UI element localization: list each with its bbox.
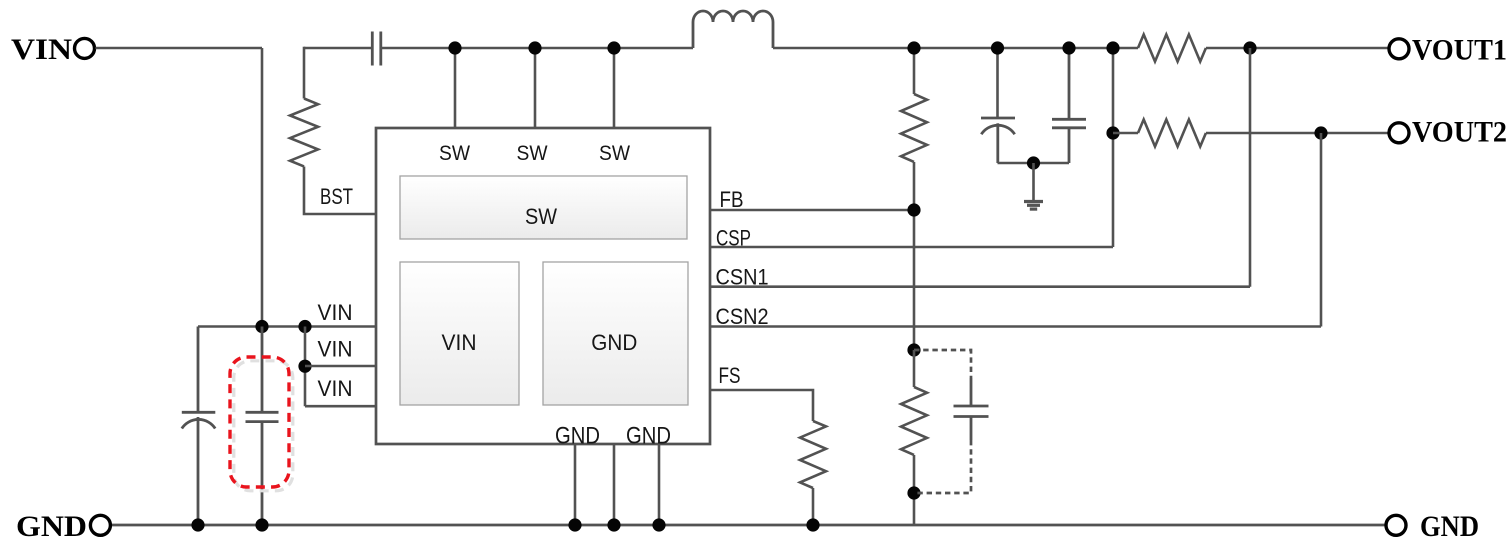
- svg-text:GND: GND: [591, 330, 637, 355]
- wire lower resistor to rail: [913, 455, 916, 525]
- svg-text:VIN: VIN: [318, 300, 353, 325]
- wire input node horizontal: [198, 325, 376, 328]
- svg-text:CSN1: CSN1: [716, 265, 769, 290]
- node dot CSN2 tap: [1314, 126, 1327, 139]
- svg-text:VIN: VIN: [318, 337, 353, 362]
- svg-text:VIN: VIN: [442, 330, 477, 355]
- wire GND pin stub 1: [574, 444, 577, 525]
- wire ground rail: [112, 524, 1385, 527]
- wire resistor to BST pin: [304, 167, 376, 215]
- highlight box (red dashed): [230, 357, 289, 487]
- resistor R-FS: [800, 421, 826, 488]
- wire VOUT2 branch: [1113, 132, 1138, 135]
- wire SW top rail: [381, 47, 693, 50]
- wire FB pin: [710, 209, 914, 212]
- terminal VIN: [11, 33, 95, 66]
- node dot SW1: [448, 41, 461, 54]
- svg-text:VOUT2: VOUT2: [1412, 116, 1507, 149]
- wire FS resistor to ground rail: [812, 488, 815, 525]
- svg-text:SW: SW: [517, 142, 548, 165]
- capacitor C-in1 (polarized): [182, 327, 216, 526]
- svg-text:GND: GND: [555, 423, 600, 450]
- wire output top rail: [773, 47, 1138, 50]
- svg-text:SW: SW: [439, 142, 470, 165]
- svg-text:VIN: VIN: [318, 376, 353, 401]
- node dot rail FS: [806, 518, 819, 531]
- wire sense node vertical: [1112, 48, 1115, 247]
- svg-text:GND: GND: [626, 423, 671, 450]
- node dot VIN pin2: [298, 360, 311, 373]
- svg-text:SW: SW: [599, 142, 630, 165]
- dashed link top: [914, 350, 971, 378]
- wire CSN1 pin: [710, 285, 1250, 288]
- node dot cap1 top: [991, 41, 1004, 54]
- wire SW pin stub 3: [613, 48, 616, 128]
- node dot sense top: [1106, 41, 1119, 54]
- node dot VIN pin1: [298, 320, 311, 333]
- capacitor C-out2: [1052, 48, 1086, 163]
- wire R-sense1 to VOUT1: [1206, 47, 1389, 50]
- resistor R-BST: [290, 99, 318, 167]
- resistor R-sense2: [1138, 120, 1206, 147]
- capacitor C-in2: [246, 327, 279, 526]
- wire VIN pin2: [305, 365, 376, 368]
- terminal GND left: [16, 510, 110, 537]
- node dot rail GND3: [652, 518, 665, 531]
- wire FB divider top: [913, 48, 916, 94]
- resistor R-FB-top: [901, 94, 927, 162]
- capacitor C-BST plates: [372, 32, 381, 66]
- svg-text:BST: BST: [320, 184, 353, 209]
- wire CSN2 pin: [710, 325, 1321, 328]
- node dot SW3: [607, 41, 620, 54]
- svg-text:VIN: VIN: [11, 33, 72, 66]
- node dot compensation bottom: [907, 486, 920, 499]
- node dot SW2: [528, 41, 541, 54]
- wire ground stub: [1032, 163, 1035, 200]
- IC inner block SW: [400, 176, 687, 239]
- svg-text:GND: GND: [16, 510, 87, 537]
- node dot rail GND2: [607, 518, 620, 531]
- wire CSN2 vertical: [1320, 133, 1323, 327]
- node dot cap2 top: [1062, 41, 1075, 54]
- dashed link bottom: [914, 440, 971, 493]
- ground symbol: [1024, 202, 1043, 210]
- IC inner block GND: [543, 262, 688, 405]
- svg-text:GND: GND: [1420, 510, 1479, 537]
- svg-text:SW: SW: [525, 204, 557, 229]
- wire VIN pin3: [305, 405, 376, 408]
- wire FB divider middle: [913, 162, 916, 350]
- node dot sense vout2: [1106, 126, 1119, 139]
- svg-text:CSN2: CSN2: [716, 304, 769, 329]
- inductor L1: [693, 11, 773, 48]
- wire GND pin stub 3: [658, 444, 661, 525]
- wire VIN feed horizontal: [96, 47, 263, 50]
- terminal GND right: [1386, 510, 1479, 537]
- wire BST node down to resistor: [303, 47, 306, 99]
- node dot CSN1 tap: [1243, 41, 1256, 54]
- capacitor C-out1 (polarized): [981, 118, 1015, 163]
- wire CSP pin: [710, 246, 1113, 249]
- node dot rail C-in2: [255, 518, 268, 531]
- wire caps common bottom: [998, 162, 1070, 165]
- capacitor C-comp: [954, 378, 989, 440]
- wire FS pin: [710, 390, 813, 421]
- wire VIN vertical drop: [261, 48, 264, 327]
- node dot rail C-in1: [191, 518, 204, 531]
- wire BST node to bootstrap cap: [304, 47, 372, 50]
- terminal VOUT1: [1389, 34, 1507, 67]
- node dot FB junction: [907, 203, 920, 216]
- wire R-sense2 to VOUT2: [1206, 132, 1389, 135]
- wire GND pin stub 2: [613, 444, 616, 525]
- svg-text:FS: FS: [719, 363, 741, 388]
- node dot compensation top: [907, 343, 920, 356]
- wire SW pin stub 2: [534, 48, 537, 128]
- resistor R-FB-bottom: [901, 387, 927, 455]
- wire to lower resistor: [913, 350, 916, 387]
- wire CSN1 vertical: [1249, 48, 1252, 287]
- svg-text:VOUT1: VOUT1: [1412, 34, 1507, 67]
- IC inner block VIN: [400, 262, 519, 405]
- node dot input main: [255, 320, 268, 333]
- highlight box shadow: [234, 361, 293, 491]
- resistor R-sense1: [1138, 35, 1206, 62]
- node dot caps bottom: [1027, 156, 1040, 169]
- wire SW pin stub 1: [454, 48, 457, 128]
- node dot output rail at divider: [907, 41, 920, 54]
- terminal VOUT2: [1389, 116, 1507, 149]
- wire VIN pin branch vertical: [304, 327, 307, 407]
- IC U1 outline: [376, 128, 710, 444]
- node dot rail GND1: [568, 518, 581, 531]
- svg-text:CSP: CSP: [716, 225, 751, 250]
- svg-text:FB: FB: [720, 187, 744, 212]
- wire output cap1 lead: [996, 48, 999, 118]
